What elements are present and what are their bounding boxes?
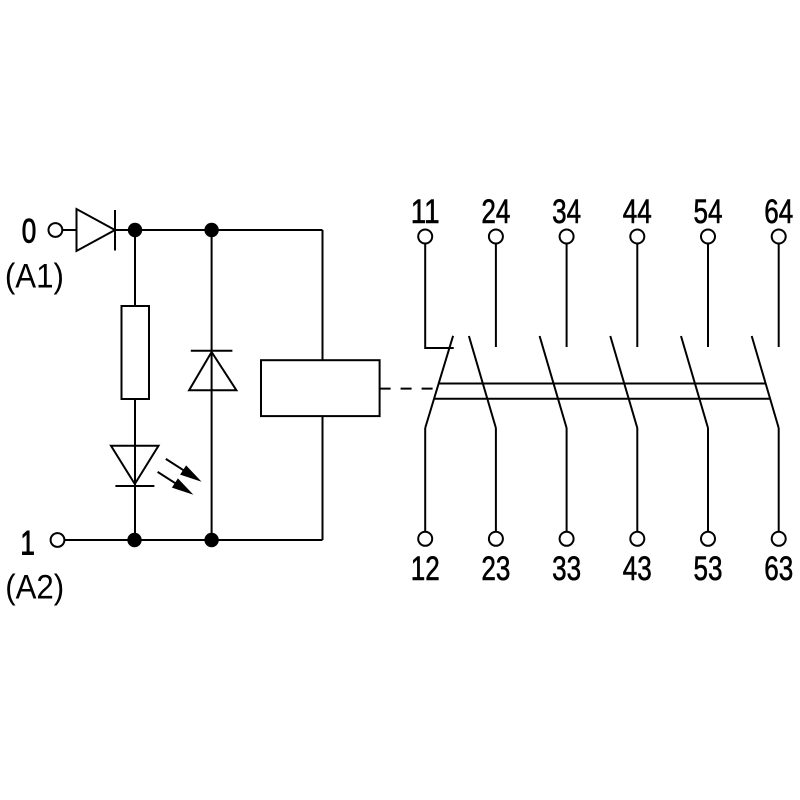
contact 4 terminal circle 43 xyxy=(630,532,644,546)
contact 6 NO fixed lead (terminal 64) xyxy=(778,244,780,348)
linkage bar lower xyxy=(434,398,770,400)
terminal circle A2 xyxy=(51,533,65,547)
svg-text:23: 23 xyxy=(481,550,510,588)
diode D2 triangle xyxy=(189,352,236,390)
svg-text:(A2): (A2) xyxy=(5,569,64,607)
svg-text:1: 1 xyxy=(20,524,35,562)
wire bottom rail xyxy=(64,539,322,541)
contact 4 terminal circle 44 xyxy=(630,230,644,244)
contact 1 NC fixed contact (terminal 11) xyxy=(425,244,454,349)
contact 5 terminal circle 53 xyxy=(701,532,715,546)
dashed mechanical link coil to contacts xyxy=(380,388,438,390)
junction dot bottom-mid xyxy=(204,533,218,547)
svg-text:53: 53 xyxy=(694,550,723,588)
wire freewheel diode branch xyxy=(211,230,213,540)
contact 4 lower lead (terminal 43) xyxy=(636,428,638,532)
contact 2 terminal circle 24 xyxy=(489,230,503,244)
contact 5 NO moving arm xyxy=(681,336,708,428)
contact 5 terminal circle 54 xyxy=(701,230,715,244)
junction dot bottom-left xyxy=(127,533,141,547)
svg-text:0: 0 xyxy=(22,213,37,251)
contact 2 terminal circle 23 xyxy=(489,532,503,546)
linkage bar upper xyxy=(439,383,766,385)
contact 4 NO fixed lead (terminal 44) xyxy=(636,244,638,348)
contact 3 terminal circle 34 xyxy=(560,230,574,244)
wire top rail corner down to coil xyxy=(322,230,324,360)
svg-text:33: 33 xyxy=(552,550,581,588)
diode D2 cathode bar xyxy=(191,350,233,352)
contact 2 NO moving arm xyxy=(469,336,496,428)
wire resistor branch xyxy=(134,230,136,540)
diode D1 triangle xyxy=(77,209,116,251)
resistor R1 xyxy=(122,306,150,399)
svg-text:63: 63 xyxy=(764,550,793,588)
contact 6 NO moving arm xyxy=(752,336,779,428)
LED D3 cathode bar xyxy=(115,485,154,487)
contact 6 terminal circle 63 xyxy=(772,532,786,546)
svg-text:64: 64 xyxy=(764,193,793,231)
contact 3 terminal circle 33 xyxy=(560,532,574,546)
junction dot top-mid xyxy=(204,223,218,237)
wire coil bottom down xyxy=(322,416,324,540)
coil K1 xyxy=(261,360,380,416)
contact 3 NO fixed lead (terminal 34) xyxy=(566,244,568,348)
svg-text:34: 34 xyxy=(552,193,581,231)
svg-text:54: 54 xyxy=(694,193,723,231)
svg-text:44: 44 xyxy=(623,193,652,231)
contact 6 terminal circle 64 xyxy=(772,230,786,244)
svg-text:12: 12 xyxy=(411,550,440,588)
diode D1 cathode bar xyxy=(114,210,116,251)
LED D3 triangle xyxy=(111,446,159,484)
LED D3 emission arrow 2 xyxy=(158,472,194,495)
contact 3 NO moving arm xyxy=(540,336,567,428)
svg-text:24: 24 xyxy=(481,193,510,231)
contact 1 terminal circle 11 xyxy=(418,230,432,244)
svg-text:43: 43 xyxy=(623,550,652,588)
LED D3 emission arrow 1 xyxy=(166,459,202,482)
contact 5 lower lead (terminal 53) xyxy=(707,428,709,532)
wire top rail xyxy=(115,229,323,231)
contact 2 lower lead (terminal 23) xyxy=(495,428,497,532)
contact 6 lower lead (terminal 63) xyxy=(778,428,780,532)
terminal circle A1 xyxy=(49,223,63,237)
svg-text:(A1): (A1) xyxy=(5,258,64,296)
contact 1 lower lead (terminal 12) xyxy=(424,428,426,532)
contact 1 terminal circle 12 xyxy=(418,532,432,546)
junction dot top-left xyxy=(128,223,142,237)
wire A1 to diode D1 xyxy=(62,229,76,231)
contact 5 NO fixed lead (terminal 54) xyxy=(707,244,709,348)
contact 2 NO fixed lead (terminal 24) xyxy=(495,244,497,348)
svg-text:11: 11 xyxy=(411,193,440,231)
contact 1 NC moving arm xyxy=(425,336,453,428)
contact 4 NO moving arm xyxy=(610,336,637,428)
contact 3 lower lead (terminal 33) xyxy=(566,428,568,532)
